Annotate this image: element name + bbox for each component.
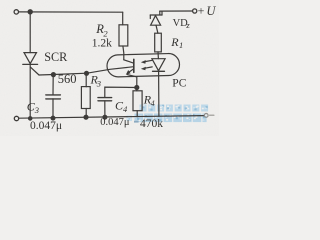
resistor R2 xyxy=(119,25,128,46)
wire zener top / top-right rail xyxy=(159,11,161,15)
wire R1 to LED xyxy=(157,52,159,59)
wire R2 top drop xyxy=(122,12,124,25)
terminal bottom-left xyxy=(14,116,18,120)
node junction top-left xyxy=(28,10,32,14)
node C3 bottom xyxy=(51,116,55,120)
transistor collector lead xyxy=(124,60,134,63)
paper noise xyxy=(0,0,1,1)
transistor base bar xyxy=(133,59,135,72)
zener diode VDz xyxy=(150,12,162,26)
node left rail bottom xyxy=(29,117,32,120)
wire to C4 xyxy=(105,87,137,97)
wire zener to R1 xyxy=(156,25,158,33)
terminal top-left xyxy=(14,10,18,14)
resistor R4 xyxy=(133,91,142,111)
watermark dash xyxy=(134,121,139,123)
resistor R3 xyxy=(81,87,90,109)
wire mid rail to optocoupler base xyxy=(39,67,134,75)
capacitor C4 xyxy=(98,98,112,101)
capacitor C3 xyxy=(46,95,61,99)
wire C3 bottom stub xyxy=(52,99,54,118)
terminal bottom-right xyxy=(204,114,208,118)
watermark xyxy=(127,105,209,123)
transistor emitter lead xyxy=(128,69,134,73)
minus sign xyxy=(210,114,214,116)
LED in optocoupler xyxy=(152,59,165,72)
wire SCR cathode down xyxy=(29,64,31,118)
wire SCR gate diagonal xyxy=(31,67,40,75)
resistor R1 xyxy=(155,33,162,52)
wire R4 bottom stub xyxy=(136,111,138,117)
node R3 bottom xyxy=(84,115,88,119)
node C3 top xyxy=(51,73,55,77)
wire emitter out xyxy=(127,75,137,88)
node C4 bottom xyxy=(103,115,107,119)
wire top rail xyxy=(19,11,123,13)
node emitter junction xyxy=(135,86,139,90)
wire C4 bottom stub xyxy=(104,101,106,117)
light arrow 2 xyxy=(145,67,152,68)
wire R3 bottom stub xyxy=(85,109,87,118)
wire C3 top stub xyxy=(52,75,54,95)
paper background xyxy=(0,0,219,136)
node R3 top xyxy=(85,71,89,75)
terminal top-right xyxy=(193,9,197,13)
wire bottom rail xyxy=(19,116,205,119)
light arrow 1 xyxy=(145,60,152,61)
wire R4 top stub xyxy=(136,88,138,91)
wire R2 bottom to collector xyxy=(122,46,125,60)
wire R3 top stub xyxy=(85,73,87,87)
optocoupler PC body xyxy=(107,53,180,77)
wire left rail down to SCR xyxy=(29,12,31,53)
SCR thyristor xyxy=(23,53,38,65)
wire LED cathode down xyxy=(158,71,160,116)
